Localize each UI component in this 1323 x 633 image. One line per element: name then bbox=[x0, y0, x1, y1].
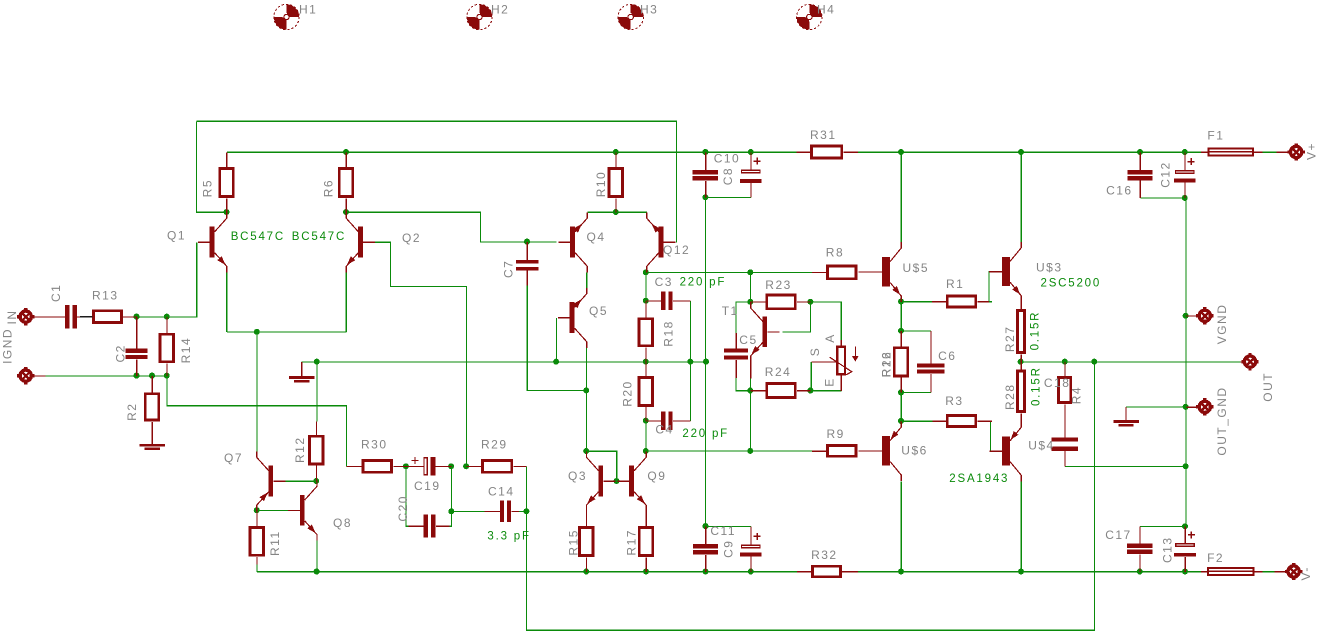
svg-text:V-: V- bbox=[1299, 566, 1313, 580]
resistor R28 bbox=[1016, 362, 1026, 421]
wire net GNDA C9 top link bbox=[706, 525, 751, 527]
wire net N$22 R3 right riser bbox=[990, 421, 992, 451]
wire net N$14 T1 collector node to C5 bbox=[736, 302, 750, 333]
pad V- bbox=[1255, 563, 1303, 580]
junction mid R18 R20 bbox=[643, 359, 649, 365]
wire net N$16 T1 emitter drop bbox=[750, 362, 752, 391]
junction tail Q7 bbox=[254, 329, 260, 335]
svg-text:0.15R: 0.15R bbox=[1030, 311, 1042, 351]
wire net GNDA C10 bottom column bbox=[705, 197, 707, 526]
wire net IGND across bbox=[137, 375, 167, 377]
junction C10 bottom bbox=[702, 194, 708, 200]
svg-text:Q7: Q7 bbox=[224, 451, 243, 465]
junction C18 line bbox=[1183, 463, 1189, 469]
resistor R14 bbox=[159, 317, 175, 376]
svg-text:Q2: Q2 bbox=[402, 231, 421, 245]
svg-text:2SA1943: 2SA1943 bbox=[949, 473, 1009, 485]
value BC547C Q2 bbox=[292, 231, 346, 243]
svg-text:R2: R2 bbox=[125, 403, 139, 421]
pad IN bbox=[17, 308, 65, 325]
wire net N$10 y272 line to R8 bbox=[646, 272, 812, 274]
mounting hole H2 bbox=[467, 4, 492, 29]
wire net N$1 top loop Q1 collector to Q12 base bbox=[197, 121, 677, 242]
label R23 bbox=[765, 278, 792, 292]
label Q2 bbox=[402, 231, 421, 245]
svg-text:R10: R10 bbox=[594, 171, 608, 198]
capacitor C17 bbox=[1127, 527, 1152, 572]
svg-text:IN: IN bbox=[5, 310, 19, 325]
resistor R32 bbox=[797, 565, 858, 578]
capacitor C8 polarized bbox=[740, 152, 762, 197]
wire net N$7 Q2 emitter drop bbox=[345, 272, 347, 332]
label Q8 bbox=[333, 516, 352, 530]
wire net V- U6 collector bbox=[900, 481, 902, 572]
label Q9 bbox=[647, 469, 666, 483]
wire net V- rail left bbox=[257, 571, 797, 573]
svg-text:R4: R4 bbox=[1069, 386, 1083, 404]
wire net N$24 Q7 base link bbox=[278, 480, 317, 482]
svg-text:C17: C17 bbox=[1105, 528, 1132, 542]
label IGND bbox=[1, 328, 15, 364]
wire net V- rail right bbox=[858, 571, 1201, 573]
fuse F2 bbox=[1201, 567, 1263, 576]
wire net VGND C16 bottom link bbox=[1140, 197, 1186, 199]
junction OUT feedback bbox=[1091, 359, 1097, 365]
label R4 bbox=[1069, 386, 1083, 404]
label R1 bbox=[946, 277, 964, 291]
wire net N$13 mirror base link bbox=[586, 451, 616, 481]
resistor R23 bbox=[751, 294, 811, 311]
label C20 bbox=[396, 495, 410, 522]
svg-text:E: E bbox=[822, 377, 836, 387]
wire net N$17 C3 right drop bbox=[690, 301, 692, 362]
resistor R30 bbox=[347, 459, 407, 474]
wire net N$28 C14 left bbox=[452, 511, 485, 513]
pad OUT_GND bbox=[1186, 398, 1213, 415]
label R10 bbox=[594, 171, 608, 198]
capacitor C5 bbox=[724, 333, 748, 378]
wire net N$7 Q1 emitter drop bbox=[226, 272, 228, 332]
svg-text:R30: R30 bbox=[361, 438, 388, 452]
junction C9 rail bbox=[748, 569, 754, 575]
label R32 bbox=[811, 548, 838, 562]
junction C19 right bbox=[448, 463, 454, 469]
wire net GNDA link 690-706 bbox=[691, 361, 707, 363]
junction OUT_GND pad bbox=[1183, 404, 1189, 410]
junction mid column bbox=[703, 359, 709, 365]
label C7 bbox=[502, 260, 516, 278]
svg-text:0.15R: 0.15R bbox=[1030, 366, 1042, 406]
capacitor C3 bbox=[646, 291, 691, 310]
svg-text:C20: C20 bbox=[396, 495, 410, 522]
label R13 bbox=[92, 289, 119, 303]
junction C17 rail bbox=[1137, 569, 1143, 575]
label F2 bbox=[1207, 551, 1224, 565]
label R29 bbox=[481, 438, 508, 452]
transistor Q9 bbox=[617, 451, 646, 511]
wire net GNDA C8 bottom link bbox=[706, 196, 751, 198]
label R20 bbox=[620, 380, 634, 407]
junction mid R12 bbox=[314, 359, 320, 365]
resistor R9 bbox=[812, 444, 858, 458]
wire net N$8 Q4-Q5 link bbox=[586, 272, 588, 288]
label T1 bbox=[722, 304, 739, 318]
wire net N$6 input node bbox=[137, 316, 167, 318]
junction IGND R2 bbox=[149, 373, 155, 379]
wire net V+ U3 collector bbox=[1020, 152, 1022, 242]
junction C12 top bbox=[1182, 149, 1188, 155]
svg-text:R9: R9 bbox=[827, 427, 845, 441]
label trimmer S bbox=[808, 347, 822, 357]
pin T1 emitter extension bbox=[750, 355, 752, 378]
junction C14 right bbox=[523, 508, 529, 514]
junction R17 rail bbox=[643, 569, 649, 575]
wire net V- R15 drop bbox=[585, 557, 587, 572]
junction C11 rail bbox=[703, 569, 709, 575]
label R11 bbox=[268, 530, 282, 556]
wire net OUT feedback drop bbox=[527, 362, 1095, 630]
junction C8 top bbox=[748, 149, 754, 155]
svg-text:3.3 pF: 3.3 pF bbox=[487, 531, 530, 543]
capacitor C16 bbox=[1127, 152, 1152, 198]
transistor Q5 bbox=[558, 288, 587, 348]
wire net N$16 C5 bottom bbox=[736, 360, 750, 391]
junction R29 left bbox=[463, 463, 469, 469]
resistor R12 bbox=[308, 422, 324, 482]
label C4 bbox=[655, 422, 673, 436]
wire net N$6 Q1 base riser bbox=[167, 242, 197, 317]
label IN bbox=[5, 310, 19, 325]
svg-text:Q9: Q9 bbox=[647, 469, 666, 483]
label R12 bbox=[293, 436, 307, 463]
label Q3 bbox=[568, 469, 587, 483]
junction R10 top bbox=[613, 149, 619, 155]
label C10 bbox=[714, 152, 741, 166]
wire net N$18 R20 bottom to Q9 bbox=[645, 421, 647, 451]
wire net N$9 C7 bottom run bbox=[527, 285, 586, 390]
capacitor C4 bbox=[646, 411, 691, 430]
wire net N$12 Q9 collector line to R9 bbox=[646, 450, 812, 452]
junction U5 collector rail bbox=[898, 149, 904, 155]
transistor Q2 bbox=[346, 212, 375, 272]
svg-text:U$6: U$6 bbox=[901, 444, 928, 458]
pad V+ bbox=[1254, 143, 1305, 160]
label V- bbox=[1299, 566, 1313, 580]
wire net N$21 U3 base riser bbox=[988, 272, 991, 302]
junction IGND C2 bbox=[134, 373, 140, 379]
wire net N$27 C20 left riser bbox=[406, 467, 408, 527]
value BC547C Q1 bbox=[231, 231, 285, 243]
svg-text:F1: F1 bbox=[1207, 129, 1224, 143]
mounting hole H4 bbox=[797, 4, 822, 29]
svg-text:R5: R5 bbox=[201, 179, 215, 197]
svg-text:R18: R18 bbox=[662, 320, 676, 347]
junction C13 top bbox=[1182, 523, 1188, 529]
label C8 bbox=[721, 167, 735, 185]
label OUT_GND bbox=[1215, 386, 1229, 455]
value 3.3 pF C14 bbox=[487, 531, 530, 543]
resistor R1 bbox=[932, 295, 989, 309]
junction C6 top bbox=[898, 328, 904, 334]
resistor R16 R22 parallel pair bbox=[893, 331, 909, 393]
junction C11 top bbox=[703, 523, 709, 529]
wire net N$7 tail line bbox=[227, 331, 347, 333]
wire net N$4 R10 bottom left to Q4 emitter bbox=[588, 211, 616, 213]
label trimmer A bbox=[823, 333, 837, 343]
resistor R18 bbox=[638, 301, 654, 362]
value 0.15R R27 bbox=[1030, 311, 1042, 351]
svg-text:Q5: Q5 bbox=[589, 304, 608, 318]
wire net OUT line bbox=[1021, 361, 1240, 363]
svg-text:Q3: Q3 bbox=[568, 469, 587, 483]
resistor R8 bbox=[812, 265, 858, 281]
svg-text:R8: R8 bbox=[826, 245, 844, 259]
pad VGND bbox=[1186, 307, 1214, 324]
svg-text:C13: C13 bbox=[1160, 536, 1174, 563]
svg-text:C4: C4 bbox=[655, 422, 673, 436]
wire net IGND pad to C2 bbox=[43, 375, 137, 377]
wire segment C1-R13 dark bbox=[80, 316, 93, 318]
wire net N$20 C6 bottom bbox=[901, 392, 931, 394]
svg-text:C12: C12 bbox=[1159, 161, 1173, 188]
resistor R6 bbox=[338, 152, 354, 212]
transistor Q3 bbox=[586, 451, 615, 511]
junction Q7 emitter bbox=[254, 507, 260, 513]
label Q12 bbox=[663, 243, 690, 257]
svg-text:H1: H1 bbox=[299, 3, 317, 17]
junction R30 C19 C20 bbox=[403, 463, 409, 469]
label C9 bbox=[722, 540, 736, 558]
resistor R24 bbox=[751, 382, 811, 399]
label H4 bbox=[817, 3, 835, 17]
svg-text:Q12: Q12 bbox=[663, 243, 690, 257]
label U$4 bbox=[1028, 439, 1055, 453]
value 220 pF C4 bbox=[682, 428, 729, 440]
transistor U$5 bbox=[859, 242, 902, 302]
label R31 bbox=[810, 128, 837, 142]
value 0.15R R28 bbox=[1030, 366, 1042, 406]
capacitor C13 polarized bbox=[1174, 527, 1196, 572]
wire net N$28 C19-C14 link bbox=[451, 467, 453, 512]
label R3 bbox=[945, 394, 963, 408]
label C14 bbox=[488, 485, 515, 499]
wire net N$19 U5 emitter node bbox=[900, 302, 902, 331]
junction C6 bottom bbox=[898, 389, 904, 395]
svg-text:R12: R12 bbox=[293, 436, 307, 463]
svg-text:R17: R17 bbox=[624, 529, 638, 556]
wire net N$29 C14 right bbox=[519, 511, 527, 513]
junction T1 collector R23 bbox=[747, 299, 753, 305]
label H1 bbox=[299, 3, 317, 17]
label R30 bbox=[361, 438, 388, 452]
svg-text:C10: C10 bbox=[714, 152, 741, 166]
capacitor C2 bbox=[126, 317, 148, 376]
value 220 pF C3 bbox=[680, 277, 727, 289]
svg-text:R32: R32 bbox=[811, 548, 838, 562]
svg-text:R28: R28 bbox=[1003, 383, 1017, 410]
wire net IGND to R30 bbox=[167, 376, 347, 467]
junction C4 left bbox=[643, 418, 649, 424]
ground GND3 out bbox=[1113, 407, 1138, 425]
svg-text:Q8: Q8 bbox=[333, 516, 352, 530]
wire net N$20 R16 bottom to R3 bbox=[900, 393, 902, 422]
junction C14 left bbox=[448, 508, 454, 514]
junction C12 bottom bbox=[1182, 195, 1188, 201]
resistor R11 bbox=[249, 510, 265, 564]
resistor R2 bbox=[144, 376, 160, 445]
label C6 bbox=[938, 349, 956, 363]
wire net N$22 R3 left bbox=[901, 420, 932, 422]
label U$3 bbox=[1036, 261, 1063, 275]
label R15 bbox=[567, 529, 581, 556]
wire net N$10 Q12 collector to C3 bbox=[645, 273, 647, 301]
junction U4 collector rail bbox=[1018, 569, 1024, 575]
wire net VGND column bbox=[1185, 198, 1187, 526]
svg-text:C1: C1 bbox=[49, 284, 63, 302]
label Q1 bbox=[167, 229, 186, 243]
label C16 bbox=[1106, 184, 1133, 198]
junction Q5 collector C7 bbox=[583, 387, 589, 393]
wire net GNDA Q5 base riser bbox=[555, 318, 557, 362]
wire net V+ rail left section bbox=[227, 151, 797, 153]
svg-text:C6: C6 bbox=[938, 349, 956, 363]
wire net N$7 Q7 collector riser bbox=[256, 332, 258, 451]
capacitor C10 bbox=[693, 152, 718, 197]
junction C13 rail bbox=[1182, 569, 1188, 575]
transistor Q8 bbox=[288, 480, 317, 540]
svg-text:BC547C: BC547C bbox=[231, 231, 285, 243]
label R9 bbox=[827, 427, 845, 441]
capacitor C20 bbox=[408, 515, 449, 538]
junction mid Q5 base bbox=[553, 359, 559, 365]
fuse F1 bbox=[1201, 147, 1263, 156]
wire net N$14 y272 to T1 col node bbox=[750, 273, 752, 303]
label R18 bbox=[662, 320, 676, 347]
wire net V- U4 collector bbox=[1020, 481, 1022, 572]
svg-text:Q4: Q4 bbox=[587, 230, 606, 244]
label C3 bbox=[655, 275, 673, 289]
label C11 bbox=[710, 524, 736, 538]
resistor R5 bbox=[218, 152, 234, 212]
wire net N$28 C20 right riser bbox=[449, 512, 451, 527]
junction R9 line T1 bbox=[747, 448, 753, 454]
label C12 bbox=[1159, 161, 1173, 188]
svg-text:H3: H3 bbox=[640, 3, 658, 17]
junction T1 emitter R24 bbox=[747, 388, 753, 394]
svg-text:220 pF: 220 pF bbox=[680, 277, 727, 289]
wire net N$16 trimmer S drop bbox=[810, 362, 812, 391]
junction U5 emitter bbox=[898, 299, 904, 305]
wire net N$9 Q5 collector drop bbox=[585, 348, 587, 391]
wire net V- Q8 emitter drop bbox=[316, 540, 318, 571]
label R5 bbox=[201, 179, 215, 197]
svg-text:C14: C14 bbox=[488, 485, 515, 499]
svg-text:R3: R3 bbox=[945, 394, 963, 408]
label R17 bbox=[624, 529, 638, 556]
wire net N$3 R6 bottom to Q4 base bbox=[346, 212, 556, 242]
wire net N$15 R23 right to T1 base bbox=[782, 302, 810, 332]
wire net V- R17 drop bbox=[645, 557, 647, 572]
junction R23 right bbox=[807, 299, 813, 305]
junction R3 left bbox=[898, 418, 904, 424]
capacitor C12 polarized bbox=[1174, 152, 1196, 198]
junction R6 top bbox=[343, 149, 349, 155]
wire net VGND gnd link bbox=[1126, 406, 1186, 408]
wire net N$19 C6 top bbox=[901, 330, 931, 332]
label R16 bbox=[880, 351, 894, 378]
wire net N$21 R1 right to U3 base bbox=[989, 301, 992, 303]
resistor R3 bbox=[932, 414, 992, 428]
svg-text:C16: C16 bbox=[1106, 184, 1133, 198]
transistor U$4 bbox=[990, 421, 1022, 481]
wire net N$1 left drop to R5 bottom bbox=[197, 121, 227, 212]
potentiometer R22 trimmer bbox=[811, 340, 858, 391]
transistor U$6 bbox=[859, 421, 902, 481]
svg-text:R1: R1 bbox=[946, 277, 964, 291]
svg-text:T1: T1 bbox=[722, 304, 739, 318]
svg-text:C11: C11 bbox=[710, 524, 736, 538]
svg-text:R31: R31 bbox=[810, 128, 837, 142]
label H3 bbox=[640, 3, 658, 17]
svg-text:H2: H2 bbox=[491, 3, 509, 17]
junction C3 left bbox=[643, 298, 649, 304]
ground GND2 below R2 bbox=[140, 422, 165, 449]
wire net V+ rail right section bbox=[858, 151, 1201, 153]
transistor U$3 bbox=[989, 242, 1021, 302]
svg-text:S: S bbox=[808, 347, 822, 357]
capacitor C11 bbox=[693, 526, 718, 571]
resistor R20 bbox=[638, 362, 654, 421]
transistor Q4 bbox=[558, 212, 587, 272]
junction input node B bbox=[164, 314, 170, 320]
junction R12 bottom bbox=[313, 478, 319, 484]
wire net N$9 down to Q3 collector bbox=[585, 391, 587, 452]
junction Q8 emitter rail bbox=[314, 569, 320, 575]
svg-text:BC547C: BC547C bbox=[292, 231, 346, 243]
resistor R10 bbox=[608, 152, 624, 212]
wire net N$5 Q2 base to feedback node bbox=[359, 242, 467, 466]
svg-text:R22: R22 bbox=[880, 351, 894, 378]
svg-text:R14: R14 bbox=[179, 337, 193, 364]
wire net N$21 R1 left bbox=[901, 301, 932, 303]
resistor R29 bbox=[466, 459, 526, 474]
svg-text:C18: C18 bbox=[1044, 376, 1071, 390]
junction Q12 collector bbox=[643, 269, 649, 275]
svg-text:OUT: OUT bbox=[1261, 372, 1275, 402]
label R8 bbox=[826, 245, 844, 259]
resistor R27 bbox=[1016, 302, 1026, 362]
junction U3 collector rail bbox=[1018, 149, 1024, 155]
svg-text:C5: C5 bbox=[739, 333, 757, 347]
junction C10 top bbox=[702, 149, 708, 155]
label C13 bbox=[1160, 536, 1174, 563]
svg-text:C8: C8 bbox=[721, 167, 735, 185]
label F1 bbox=[1207, 129, 1224, 143]
svg-text:VGND: VGND bbox=[1215, 304, 1229, 345]
svg-text:C7: C7 bbox=[502, 260, 516, 278]
value 2SA1943 U$4 bbox=[949, 473, 1009, 485]
wire net N$16 trimmer E link bbox=[811, 390, 841, 392]
label R14 bbox=[179, 337, 193, 364]
junction C7 top bbox=[524, 239, 530, 245]
junction input node A bbox=[134, 314, 140, 320]
svg-text:U$5: U$5 bbox=[903, 261, 930, 275]
wire net V- R11 drop bbox=[256, 557, 258, 572]
junction mid C3 C4 bbox=[687, 359, 693, 365]
label trimmer E bbox=[822, 377, 836, 387]
svg-text:Q1: Q1 bbox=[167, 229, 186, 243]
wire net N$12 T1 emitter riser bbox=[750, 391, 752, 451]
